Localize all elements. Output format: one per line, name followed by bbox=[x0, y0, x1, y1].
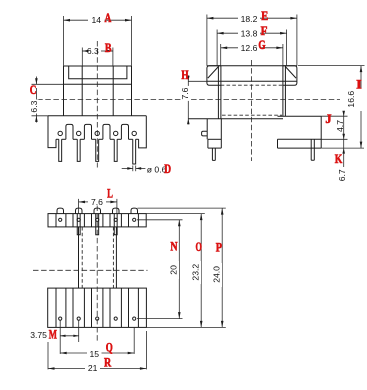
svg-text:B: B bbox=[105, 41, 112, 55]
rect top edge with extension to J dim bbox=[278, 115, 322, 117]
left pin bbox=[212, 148, 215, 160]
svg-text:16.6: 16.6 bbox=[346, 91, 356, 108]
svg-text:P: P bbox=[216, 240, 222, 254]
plate right edge and ledge bbox=[139, 116, 147, 148]
slot 3 bbox=[103, 124, 110, 139]
left terminal block (side view) bbox=[188, 119, 283, 161]
block hole circle 4 bbox=[114, 317, 117, 320]
left neck outer wall bbox=[217, 66, 219, 119]
svg-text:18.2: 18.2 bbox=[241, 14, 258, 24]
pin 1 bbox=[59, 139, 62, 161]
dimension G (12.6) bbox=[221, 43, 283, 66]
block hole circle 1 bbox=[59, 317, 62, 320]
horizontal centerline (shared with side view) bbox=[37, 99, 340, 101]
hidden core hole right edge bbox=[112, 227, 114, 288]
svg-text:R: R bbox=[104, 355, 112, 369]
left flange box bbox=[207, 66, 221, 85]
right flange box bbox=[283, 66, 297, 85]
strip hole circle 1 bbox=[59, 218, 62, 221]
winding slot floor line (H top reference) bbox=[188, 80, 207, 82]
center leg right edge bbox=[112, 66, 114, 116]
barrel right edge bbox=[115, 227, 117, 288]
block outline bbox=[48, 288, 147, 327]
right neck outer wall bbox=[284, 66, 286, 116]
svg-text:14: 14 bbox=[92, 15, 102, 25]
slot 2 bbox=[84, 124, 91, 139]
bobbin body outline (front view) bbox=[64, 66, 132, 116]
svg-text:13.8: 13.8 bbox=[241, 28, 258, 38]
pin hole circle 3 bbox=[95, 131, 99, 135]
pin hole circle 4 bbox=[114, 131, 118, 135]
block hole circle 3 bbox=[96, 317, 99, 320]
svg-text:O: O bbox=[196, 240, 203, 254]
dimension L (7.6 barrel width) bbox=[79, 197, 117, 214]
svg-text:7.6: 7.6 bbox=[91, 197, 103, 207]
back plate top edge bbox=[188, 118, 283, 120]
svg-text:7.6: 7.6 bbox=[180, 87, 190, 99]
svg-text:Q: Q bbox=[106, 341, 113, 355]
block hole circle 5 bbox=[133, 317, 136, 320]
pin 2 bbox=[77, 139, 80, 161]
dimension B (6.3) bbox=[82, 46, 113, 66]
dimension K (6.7 vertical) bbox=[337, 139, 347, 183]
center leg left edge bbox=[81, 66, 83, 116]
flange boxes with chamfer diagonals bbox=[188, 66, 297, 119]
svg-text:6.3: 6.3 bbox=[87, 46, 99, 56]
left flange chamfer diagonal bbox=[208, 67, 219, 79]
svg-text:15: 15 bbox=[90, 349, 100, 359]
block hole circle 2 bbox=[77, 317, 80, 320]
dimension A (14) bbox=[64, 15, 132, 66]
strip hole circle 4 bbox=[114, 218, 117, 221]
bent pin tab 2 bbox=[76, 208, 83, 214]
hidden barrel top edge bbox=[221, 84, 283, 86]
vertical centerline of view 1 bbox=[96, 41, 98, 168]
dimension M (3.75 pin pitch) bbox=[30, 321, 78, 343]
pin hole circle 5 bbox=[132, 131, 136, 135]
left block bottom step bbox=[208, 138, 221, 140]
bent pin tab 1 bbox=[57, 208, 64, 214]
svg-text:23.2: 23.2 bbox=[190, 264, 200, 281]
svg-text:C: C bbox=[30, 83, 37, 97]
svg-text:K: K bbox=[335, 152, 343, 166]
right flange chamfer diagonal bbox=[285, 67, 296, 79]
svg-text:3.75: 3.75 bbox=[30, 330, 47, 340]
flange right edge bbox=[131, 66, 133, 116]
body top edge bbox=[207, 65, 297, 67]
vertical centerline of side view bbox=[251, 60, 253, 161]
left foot bbox=[207, 139, 209, 148]
svg-text:6.7: 6.7 bbox=[337, 169, 347, 181]
flange left edge bbox=[63, 66, 65, 116]
dimension H (7.6 vertical, left of side view) bbox=[180, 75, 190, 124]
svg-text:J: J bbox=[325, 112, 331, 126]
vertical centerline of view 3 bbox=[96, 206, 98, 343]
bent pin tab 5 bbox=[131, 208, 138, 214]
slot 1 bbox=[66, 124, 73, 139]
right foot left edge bbox=[277, 139, 279, 148]
svg-text:G: G bbox=[258, 38, 265, 52]
flange bottom line bbox=[64, 83, 132, 85]
svg-text:A: A bbox=[105, 11, 112, 25]
dimension R (21) bbox=[48, 331, 146, 373]
svg-text:12.6: 12.6 bbox=[241, 43, 258, 53]
snap nub bbox=[202, 131, 208, 136]
hidden core hole left edge bbox=[81, 227, 83, 288]
dimension D (pin diameter 0.6) bbox=[122, 164, 167, 174]
left neck inner wall bbox=[220, 66, 222, 119]
strip hole circle 5 bbox=[133, 218, 136, 221]
pin 2 through strip bbox=[77, 214, 80, 235]
svg-text:4.7: 4.7 bbox=[335, 120, 345, 132]
pin hole circle 1 bbox=[58, 131, 62, 135]
pin 4 through strip bbox=[114, 214, 117, 235]
svg-text:F: F bbox=[261, 24, 268, 38]
barrel left edge bbox=[78, 227, 80, 288]
slot 4 bbox=[121, 124, 128, 139]
svg-text:N: N bbox=[170, 240, 177, 254]
dimension J (4.7 vertical) bbox=[335, 111, 345, 140]
dimension I (16.6 vertical, far right) bbox=[298, 66, 365, 149]
right neck inner wall bbox=[282, 66, 284, 116]
svg-text:6.3: 6.3 bbox=[29, 100, 39, 112]
svg-text:L: L bbox=[107, 186, 113, 200]
strip hole circle 3 bbox=[96, 218, 99, 221]
right terminal block (side view) bbox=[278, 116, 365, 160]
pin 3 bbox=[96, 139, 99, 161]
front pin-row strip bbox=[48, 208, 146, 235]
svg-text:M: M bbox=[49, 328, 57, 342]
horizontal centerline of view 3 bbox=[33, 269, 148, 271]
plate left edge and ledge bbox=[48, 116, 56, 148]
strip outline bbox=[48, 214, 146, 227]
dimension Q (15) bbox=[60, 327, 134, 358]
svg-text:E: E bbox=[261, 9, 268, 23]
rect right edge bbox=[320, 116, 322, 148]
strip hole circle 2 bbox=[77, 218, 80, 221]
svg-text:I: I bbox=[356, 77, 362, 91]
tower shoulders bbox=[56, 138, 59, 140]
dimension P (24.0) bbox=[138, 208, 226, 327]
winding slot box bbox=[69, 66, 127, 79]
right pin bbox=[311, 139, 314, 160]
strip divider walls bbox=[55, 214, 57, 227]
svg-text:24.0: 24.0 bbox=[211, 266, 221, 283]
pin 4 bbox=[114, 139, 117, 161]
winding barrel seen from top bbox=[79, 227, 117, 288]
body top edge bbox=[64, 65, 132, 67]
bent pin tab 3 bbox=[94, 208, 101, 214]
rect bottom line with extension bbox=[278, 138, 322, 140]
bent pin tab 4 bbox=[113, 208, 120, 214]
svg-text:20: 20 bbox=[168, 265, 178, 275]
left block sides bbox=[206, 119, 208, 140]
dimension N (20 row spacing) bbox=[137, 220, 183, 319]
block divider walls bbox=[55, 288, 57, 327]
svg-text:21: 21 bbox=[88, 363, 98, 373]
pin 5 (longer, dimensioned) bbox=[133, 139, 136, 164]
dimension F (13.8) bbox=[217, 28, 287, 65]
rear terminal block (top view) bbox=[48, 288, 147, 327]
pin 3 through strip bbox=[96, 214, 99, 235]
pin hole circle 2 bbox=[77, 131, 81, 135]
svg-text:D: D bbox=[164, 162, 171, 176]
plate top edge bbox=[48, 115, 146, 117]
dimension C (6.3 vertical, left) bbox=[29, 77, 64, 123]
dimension O (23.2) bbox=[146, 214, 226, 328]
foot bottom line extended to 16.6 dim bbox=[278, 147, 322, 149]
hidden barrel bottom edge bbox=[222, 114, 282, 116]
dimension E (18.2) bbox=[207, 14, 297, 66]
pin base plate with towers and pins (front view) bbox=[48, 116, 146, 164]
svg-text:H: H bbox=[181, 68, 188, 82]
